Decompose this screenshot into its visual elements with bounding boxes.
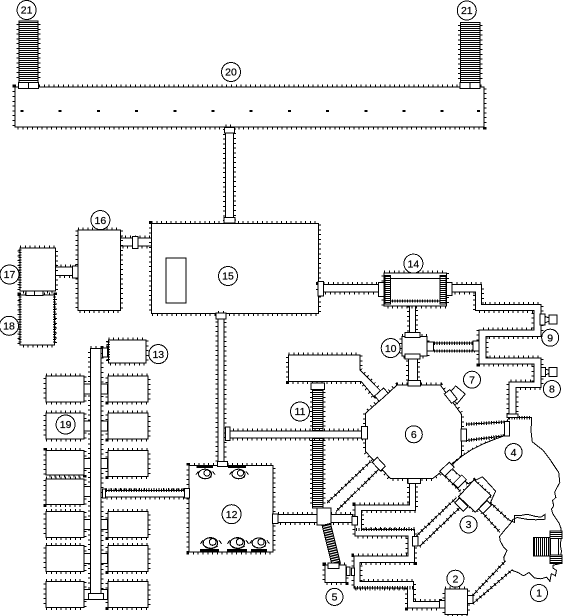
room 7 (448, 386, 466, 404)
svg-text:8: 8 (549, 384, 555, 396)
ladder 21 doors (19, 83, 29, 89)
svg-text:2: 2 (452, 573, 458, 585)
dots in corridor 20 (21, 110, 481, 112)
corridor 20 to 15 (225, 127, 233, 224)
room 1 stairs (533, 537, 550, 556)
svg-text:14: 14 (408, 258, 420, 270)
svg-text:5: 5 (332, 592, 338, 604)
ladder 21 right (461, 25, 481, 81)
svg-text:9: 9 (547, 332, 553, 344)
svg-text:19: 19 (60, 419, 72, 431)
corridor 12 left (106, 490, 185, 497)
svg-text:10: 10 (385, 343, 397, 355)
hatched diagonal J1 to room 5 (322, 523, 340, 565)
svg-text:1: 1 (536, 588, 542, 600)
room 14 (384, 273, 446, 306)
sawtooth corridor right of room 10 (434, 343, 476, 351)
svg-text:4: 4 (511, 447, 517, 459)
svg-text:17: 17 (4, 269, 16, 281)
octagon room 6 (366, 385, 462, 479)
corridor octagon right to room 4 (466, 422, 506, 441)
diagonal D2 to room 3 (415, 498, 462, 547)
junction J1 (317, 508, 331, 525)
bottom serpentine (354, 483, 440, 608)
diagonal room 2 to room 1 (473, 561, 513, 604)
corridor 20 (15, 87, 484, 127)
svg-text:21: 21 (21, 5, 33, 17)
svg-text:3: 3 (466, 519, 472, 531)
svg-text:12: 12 (226, 509, 238, 521)
ladder 21 left (19, 24, 38, 81)
corridor 15 to 14 (319, 285, 379, 292)
diagonal room 3 to room 1 (482, 503, 508, 533)
room 5 (325, 565, 346, 583)
svg-text:18: 18 (3, 321, 15, 333)
svg-text:16: 16 (95, 215, 107, 227)
corridors near room 10 (410, 306, 416, 337)
svg-text:21: 21 (461, 5, 473, 17)
diagonal octagon to room 3 (439, 463, 468, 492)
room 3 (459, 480, 491, 512)
svg-text:11: 11 (295, 406, 306, 418)
big S corridor on right (452, 285, 541, 414)
stubs 9 and 8 (549, 315, 557, 324)
svg-text:7: 7 (469, 374, 475, 386)
svg-text:15: 15 (222, 271, 234, 283)
corridor from vc2 to octagon (left door) (228, 431, 364, 438)
corridor 15 to 12 (218, 314, 224, 466)
room 2 (445, 589, 468, 614)
ladder 11 (312, 392, 323, 505)
top-left room + its diagonal (289, 355, 383, 398)
svg-text:20: 20 (225, 67, 237, 79)
diagonal octagon to J1 (327, 462, 380, 512)
cavern rooms 4 + 1 (453, 435, 506, 464)
svg-text:13: 13 (152, 349, 164, 361)
corridor 12 right to J1 (278, 515, 353, 523)
svg-text:6: 6 (411, 429, 417, 441)
